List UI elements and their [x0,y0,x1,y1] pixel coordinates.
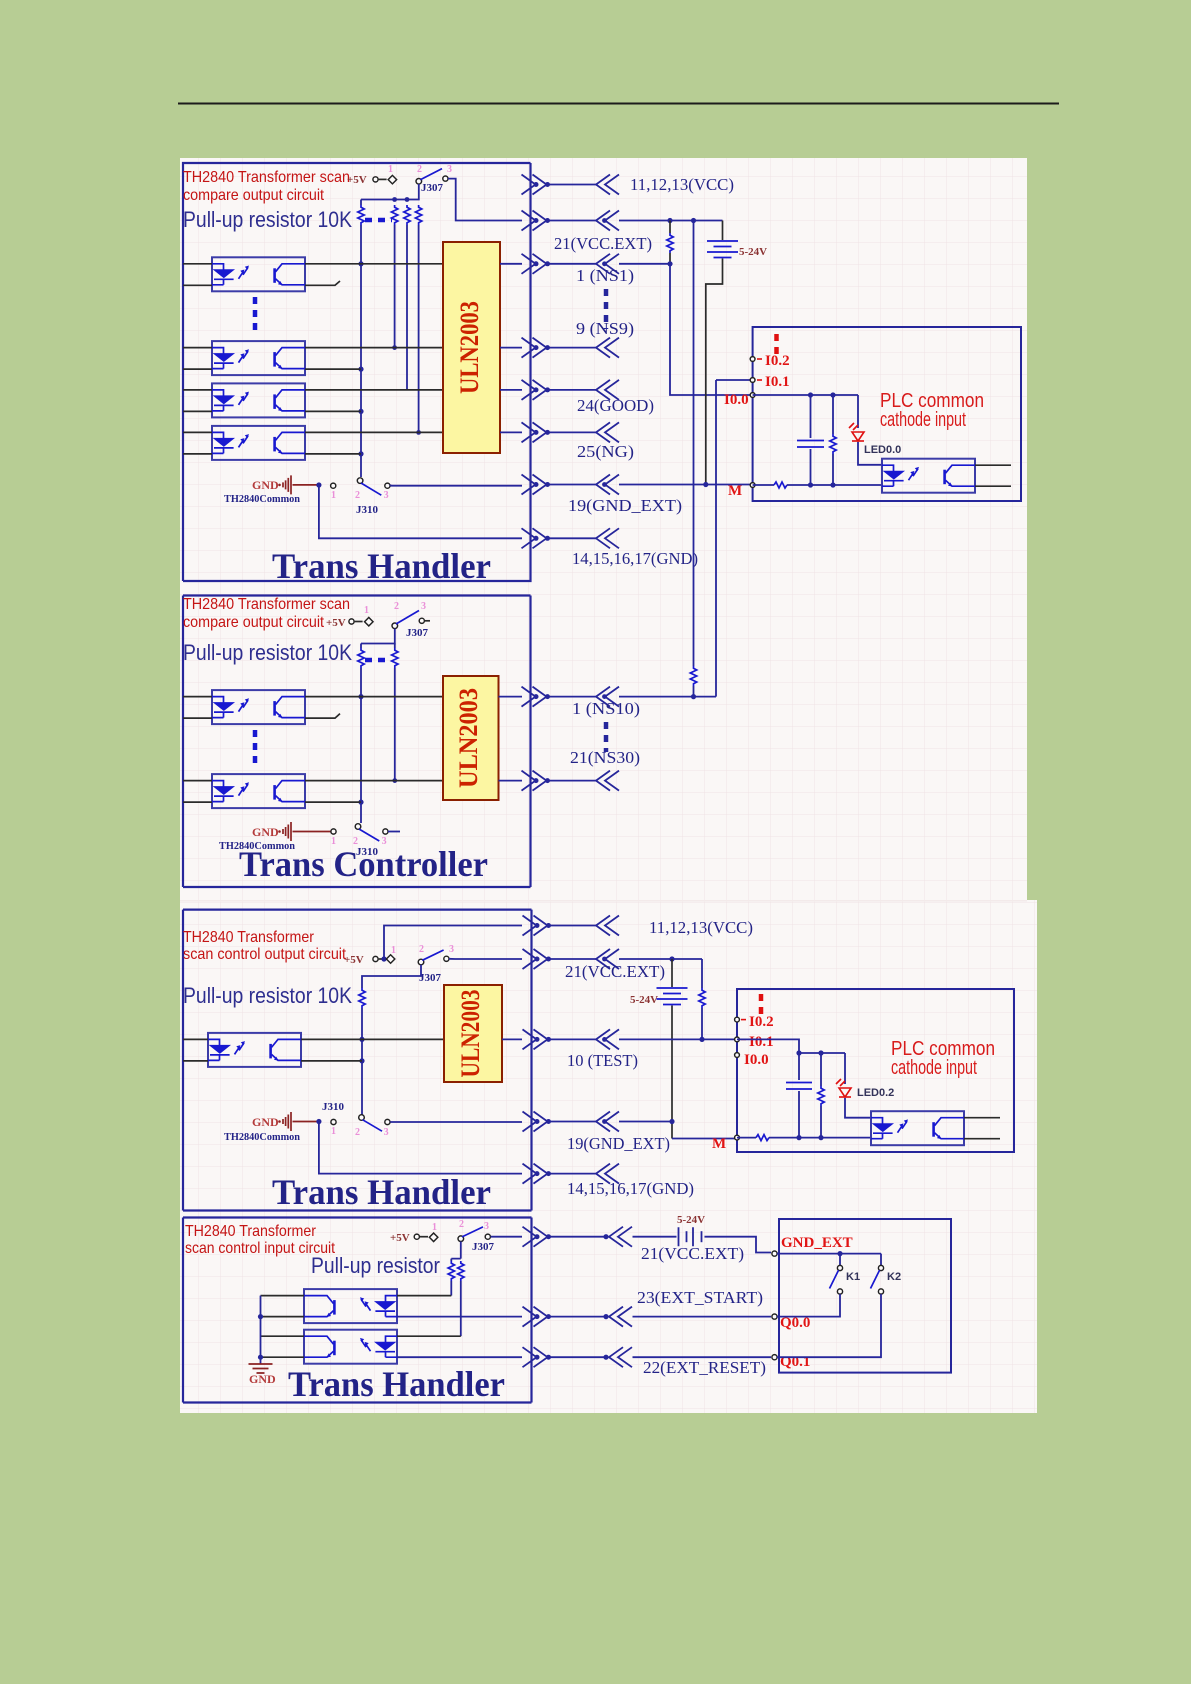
pin I0.2 [735,1017,740,1022]
resistor R10 [359,988,365,1008]
dashed NS1-NS9 mark [604,289,609,329]
section 2 frame [183,596,531,888]
svg-text:J307: J307 [419,972,442,984]
svg-text:TH2840 Transformer scan: TH2840 Transformer scan [183,596,350,613]
svg-text:TH2840 Transformer scan: TH2840 Transformer scan [183,169,350,186]
pin M [735,1135,740,1140]
svg-text:compare output circuit: compare output circuit [183,614,324,631]
dashed more-optos mark [253,730,258,764]
connector rows section4 [523,1227,552,1247]
node GND junction [316,482,321,487]
wire J307 pin3 to VCC.EXT row [491,1236,522,1238]
wire U8 emitter [305,801,361,803]
ground symbol [249,1364,273,1373]
wire TEST row to PLC I0.1 [619,1038,737,1040]
wire NS1 row to pull-down resistor [619,263,670,265]
switch J307 [416,179,422,185]
svg-text:3: 3 [384,1127,389,1138]
wire pull-up3 down [406,225,408,390]
svg-text:5-24V: 5-24V [739,246,767,258]
LED LED0.0 [857,395,859,428]
opto input wires [183,697,212,803]
svg-text:21(VCC.EXT): 21(VCC.EXT) [641,1244,744,1263]
svg-text:scan control output circuit: scan control output circuit [183,946,346,963]
opto output wires PLC3 [964,1118,1000,1139]
switch J310 [331,829,336,834]
svg-text:10 (TEST): 10 (TEST) [567,1051,638,1070]
svg-text:J307: J307 [421,182,444,194]
svg-text:21(VCC.EXT): 21(VCC.EXT) [554,234,652,253]
connector rows section2 [522,687,551,707]
wire pull-up1 / emitter bus to J310 [360,668,362,823]
svg-text:+5V: +5V [347,174,367,186]
svg-text:1: 1 [364,605,369,616]
wire EXT_RESET row to Q0.1 [633,1356,772,1358]
svg-text:19(GND_EXT): 19(GND_EXT) [567,1134,670,1153]
switch J307 [392,623,398,629]
wire NS10 row [619,696,716,698]
svg-text:J307: J307 [472,1241,495,1253]
wire J310 pin3 to GND_EXT row [390,1121,522,1124]
battery B3 5-24V [679,1227,702,1246]
svg-text:+5V: +5V [326,617,346,629]
ULN output wires [500,264,522,433]
resistor R6 [832,395,834,434]
svg-text:J310: J310 [322,1101,345,1113]
connector rows section3 [523,916,552,936]
ULN output wires [499,697,523,781]
svg-text:+5V: +5V [344,954,364,966]
svg-text:1 (NS1): 1 (NS1) [576,266,634,285]
svg-text:3: 3 [449,944,454,955]
pin M [750,483,755,488]
svg-text:1: 1 [432,1222,437,1233]
wire U2 collector to ULN in2 [305,347,443,349]
wire node NS1 down to PLC I0.0 [670,264,753,395]
svg-text:Trans Controller: Trans Controller [239,844,488,884]
svg-text:M: M [712,1136,726,1152]
svg-text:2: 2 [459,1219,464,1230]
opto output wires PLC1 [975,465,1011,486]
wire pull-up2 down [394,225,396,348]
svg-text:21(VCC.EXT): 21(VCC.EXT) [565,962,665,981]
svg-text:M: M [728,483,742,499]
wire GND bus [260,1296,262,1364]
ULN2003 U5 [443,242,500,453]
wire U2 emitter [305,368,361,370]
svg-text:LED0.2: LED0.2 [857,1087,894,1099]
pin Q0.1 [772,1355,777,1360]
wire J310 pin3 to GND_EXT row [390,485,522,486]
wire pull-up2 to opto2 anode row [460,1281,462,1336]
svg-text:2: 2 [394,601,399,612]
wire U13 cathode to EXT_START row [397,1316,522,1318]
capacitor C2 [798,1053,800,1080]
row link wires [548,185,596,539]
wire U14 anode to pull-up [397,1335,461,1337]
svg-text:14,15,16,17(GND): 14,15,16,17(GND) [572,549,698,568]
resistor R14 [458,1261,464,1281]
svg-text:ULN2003: ULN2003 [455,301,484,394]
svg-text:+5V: +5V [390,1232,410,1244]
wire U1 collector to ULN in1 [305,263,443,265]
dashed continuation [365,658,391,663]
wire GND_EXT row to battery rail [619,1121,672,1123]
PLC box P1 [753,327,1021,501]
wire VCC.EXT row right [619,958,702,960]
wire M / GND_EXT row [619,484,753,486]
svg-text:11,12,13(VCC): 11,12,13(VCC) [649,918,753,937]
svg-text:2: 2 [419,944,424,955]
switch J310 [331,1119,336,1124]
svg-text:K2: K2 [887,1271,901,1283]
wire J307 pin2 to pull-up bracket [451,1242,461,1259]
svg-text:GND: GND [249,1372,276,1386]
wire rail to M pin [672,1138,737,1140]
resistor R8 [394,644,396,649]
wire pull-up1 to opto1 anode row [450,1281,452,1296]
svg-text:24(GOOD): 24(GOOD) [577,396,654,415]
resistor R7 [360,644,362,649]
svg-text:I0.1: I0.1 [749,1034,774,1050]
pin I0.1 [735,1037,740,1042]
wire U7 emitter stub [305,714,340,719]
wire J307 pin2 to pull-up bracket [361,629,395,644]
optocoupler U10 [208,1033,301,1067]
wire U1 emitter stub [305,281,340,285]
svg-text:25(NG): 25(NG) [577,442,634,461]
svg-text:J307: J307 [406,627,429,639]
resistor R11 [701,959,703,988]
pin I0.0 [735,1053,740,1058]
svg-text:3: 3 [421,601,426,612]
battery B1 5-24V [722,221,724,241]
wire J307 pin2 to pull-up [362,965,421,988]
capacitor C1 [810,395,812,438]
opto input wires [183,264,212,454]
wire pull-up bus [361,184,419,200]
seam between stacked screenshots [180,900,1027,902]
top horizontal rule [178,103,1059,105]
resistor R1 pull-up [360,200,362,206]
wire U10 collector to ULN [301,1038,444,1040]
wire GND to 14..17(GND) row [319,485,522,538]
switch K1 [839,1254,841,1266]
switch J307 [458,1236,464,1242]
bus wire right border section 1 [183,163,531,581]
wire U3 emitter [305,410,361,412]
junction dots at left chevrons [602,218,607,1124]
pin I0.0 [750,393,755,398]
pin I0.1 [750,378,755,383]
wire pull-up down / emitter bus [361,1008,363,1115]
svg-text:3: 3 [484,1221,489,1232]
svg-text:Pull-up resistor: Pull-up resistor [311,1253,440,1278]
svg-text:23(EXT_START): 23(EXT_START) [637,1288,763,1307]
wire U8 collector to ULN in2 [305,780,443,782]
connector J307 pin1 [373,177,378,182]
svg-text:11,12,13(VCC): 11,12,13(VCC) [630,175,734,194]
wire U7 collector to ULN in1 [305,696,443,698]
wire VCC.EXT row to battery [619,220,723,222]
svg-text:ULN2003: ULN2003 [456,990,485,1078]
optocoupler U13 (mirrored) [304,1289,397,1323]
svg-text:3: 3 [384,490,389,501]
svg-text:5-24V: 5-24V [630,994,658,1006]
opto input wires [183,1039,208,1061]
resistor R5 [669,221,671,234]
wire U4 emitter [305,453,361,455]
wire U13 anode to pull-up [397,1295,451,1297]
wire VCC.EXT row to battery [633,1236,677,1238]
optocoupler U3 [212,383,305,417]
switch K2 [880,1254,882,1266]
pin I0.2 [750,357,755,362]
optocoupler U7 [212,690,305,724]
resistor R2 pull-up [391,205,397,225]
dashed continuation between pull-ups [365,218,392,223]
wire GND to GND row [319,1122,522,1174]
svg-text:TH2840Common: TH2840Common [224,493,300,505]
wire pull-up4 down [418,225,420,432]
wire EXT_START row to Q0.0 [633,1316,772,1318]
svg-text:GND_EXT: GND_EXT [781,1235,853,1251]
optocoupler U4 [212,426,305,460]
resistor R4 pull-up [415,205,421,225]
wire U4 collector to ULN in4 [305,431,443,433]
svg-text:LED0.0: LED0.0 [864,444,901,456]
svg-text:ULN2003: ULN2003 [454,688,483,788]
svg-text:K1: K1 [846,1271,860,1283]
section 3 frame [183,910,532,1211]
svg-text:Trans Handler: Trans Handler [272,1172,491,1212]
wire PLC I0.1 feed down to NS10 [716,380,753,697]
optocoupler U12 inside PLC3 [871,1111,964,1145]
optocoupler U8 [212,774,305,808]
section 4 frame [183,1218,532,1403]
wire opto outputs to GND bus [261,1296,305,1358]
svg-text:TH2840Common: TH2840Common [224,1131,300,1143]
ULN2003 U11 [444,985,502,1082]
svg-text:2: 2 [417,164,422,175]
wire J307 pin3 to VCC.EXT row [448,179,522,221]
ULN output wire [502,1038,522,1040]
resistor R3 pull-up [404,205,410,225]
switch J307 [418,959,424,965]
svg-text:GND: GND [252,825,279,839]
svg-text:GND: GND [252,478,279,492]
svg-text:Pull-up resistor 10K: Pull-up resistor 10K [183,983,352,1008]
resistor R13 [450,1259,452,1261]
right chevrons section1 [596,175,619,195]
LED LED0.2 [844,1053,846,1084]
resistor R9 on VCC rail [690,666,696,686]
PLC box P2 [737,989,1014,1152]
section 1 frame / top wire and left border [183,163,531,581]
svg-text:cathode input: cathode input [880,409,966,431]
schematic white area upper [180,158,1027,900]
svg-text:GND: GND [252,1115,279,1129]
pin Q0.0 [772,1314,777,1319]
connector J307 pin1 [373,956,378,961]
svg-text:I0.2: I0.2 [749,1014,774,1030]
svg-text:1: 1 [331,1126,336,1137]
wire U3 collector to ULN in3 [305,389,443,391]
wire M row inside PLC3 [737,1137,756,1139]
red dashed mark [774,334,779,356]
svg-text:1: 1 [331,490,336,501]
wire pull-up2 down to ULN in2 row [394,668,396,781]
svg-text:22(EXT_RESET): 22(EXT_RESET) [643,1358,766,1377]
svg-text:2: 2 [355,490,360,501]
dashed more-optos mark [253,297,258,331]
svg-text:TH2840 Transformer: TH2840 Transformer [185,1223,317,1240]
red dashed mark [759,994,764,1016]
wire J307 pin3 to VCC.EXT row [449,958,522,960]
svg-text:Pull-up resistor 10K: Pull-up resistor 10K [183,207,352,232]
resistor R12 [820,1053,822,1086]
wire node row inside PLC1 [753,394,858,396]
dashed NS10-NS30 mark [604,722,609,752]
svg-text:Trans Handler: Trans Handler [272,546,491,586]
wire node row inside PLC3 [737,1039,845,1053]
connector rows section1 (left chevrons) [522,175,551,195]
ULN2003 U9 [443,676,499,800]
svg-text:14,15,16,17(GND): 14,15,16,17(GND) [567,1179,694,1198]
optocoupler U2 [212,341,305,375]
switch J310 [331,483,336,488]
svg-text:1 (NS10): 1 (NS10) [572,699,640,718]
wire U10 emitter [301,1060,362,1062]
connector J307 pin1 [414,1234,419,1239]
svg-text:2: 2 [355,1127,360,1138]
connector J307 pin1 [349,619,354,624]
pin GND_EXT [772,1251,777,1256]
wire M row inside PLC1 [753,484,774,486]
svg-text:cathode input: cathode input [891,1057,977,1079]
battery B2 5-24V [671,959,673,987]
schematic white area lower [180,900,1037,1413]
svg-text:Pull-up resistor 10K: Pull-up resistor 10K [183,640,352,665]
wire pull-up1 / emitter bus down to J310 pin2 [360,225,362,477]
optocoupler U14 (mirrored) [304,1330,397,1364]
svg-text:J310: J310 [356,504,379,516]
svg-text:Trans Handler: Trans Handler [288,1364,505,1404]
optocoupler U6 inside PLC1 [882,459,975,493]
svg-text:I0.1: I0.1 [765,374,790,390]
PLC box P3 [779,1219,951,1373]
svg-text:5-24V: 5-24V [677,1214,705,1226]
svg-text:I0.0: I0.0 [744,1052,769,1068]
svg-text:1: 1 [388,164,393,175]
wire +5V up to VCC row [384,926,522,960]
svg-text:3: 3 [447,164,452,175]
wire GND_EXT inside [777,1253,881,1255]
svg-text:TH2840 Transformer: TH2840 Transformer [183,929,315,946]
wire rail to section2 NS10 [693,221,695,667]
optocoupler U1 [212,257,305,291]
svg-text:1: 1 [391,945,396,956]
svg-text:I0.2: I0.2 [765,353,790,369]
wire U14 cathode to EXT_RESET row [397,1356,522,1358]
svg-text:compare output circuit: compare output circuit [183,187,324,204]
svg-text:19(GND_EXT): 19(GND_EXT) [568,496,682,515]
svg-text:I0.0: I0.0 [724,392,749,408]
